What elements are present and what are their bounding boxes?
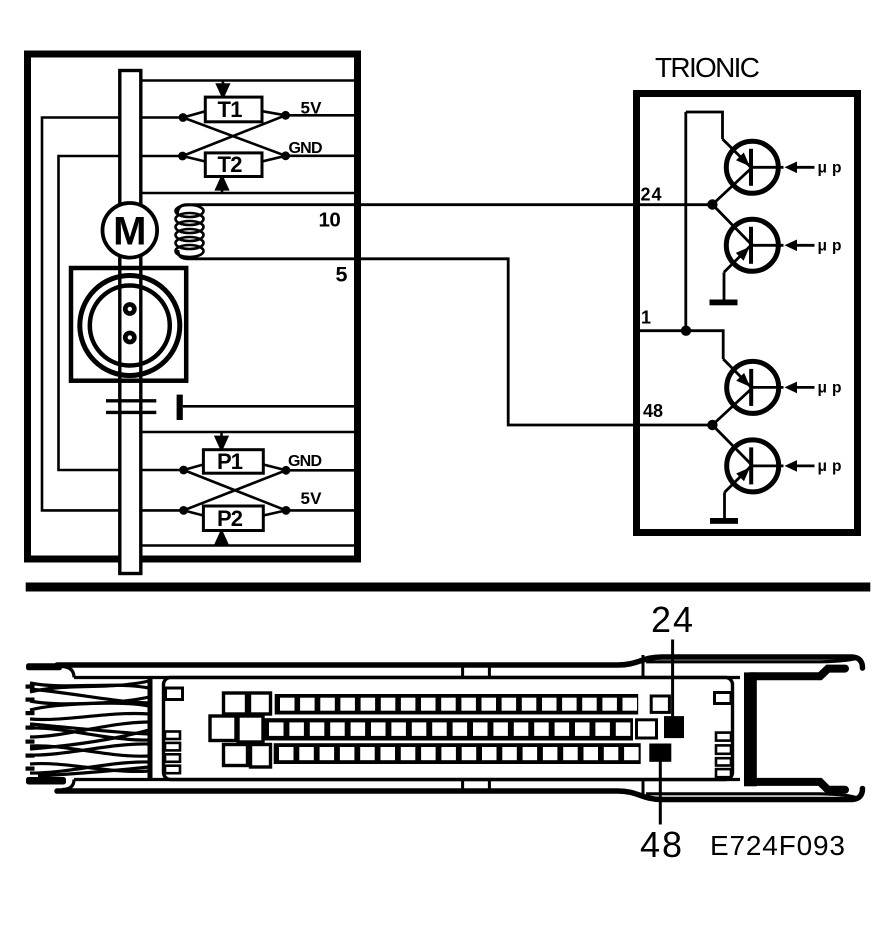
svg-text:E724F093: E724F093 — [710, 830, 845, 861]
wire pin 10 to Trionic pin 24 — [178, 205, 713, 214]
transistor Q1 — [712, 141, 783, 204]
potentiometer track P2 — [184, 506, 286, 531]
svg-text:TRIONIC: TRIONIC — [655, 52, 760, 83]
node 48 junction dot — [707, 420, 717, 430]
resistor track T1 — [183, 97, 286, 122]
motor winding coil — [176, 205, 204, 257]
throttle bore outer circle — [80, 276, 180, 376]
housing left comb teeth — [165, 732, 180, 774]
svg-text:1: 1 — [641, 308, 651, 328]
motor M — [103, 203, 158, 258]
keyway block cluster — [210, 693, 271, 767]
pin 1 wire — [637, 329, 687, 332]
throttle body enclosure box — [28, 54, 358, 559]
harness bundle end bar — [148, 679, 153, 778]
connector housing — [164, 678, 733, 780]
housing left keying tab — [166, 688, 183, 700]
harness outer outline bottom — [57, 789, 863, 800]
sheath inner line lower right — [646, 794, 857, 798]
pin 24 highlighted — [664, 716, 684, 738]
throttle bore inner circle — [90, 286, 170, 366]
pin holes row 1 — [280, 698, 637, 711]
leader line pin 24 — [671, 640, 674, 719]
pin strip row 1 — [275, 694, 639, 715]
svg-text:5: 5 — [336, 263, 348, 287]
wire GND lower — [286, 469, 358, 472]
harness jacket bottom stub — [26, 777, 66, 785]
junction dots T1/T2 — [178, 111, 290, 161]
wire T1-left to vertical bus A to P2-left — [42, 118, 184, 511]
pin holes row 2 — [269, 722, 630, 736]
harness jacket top stub — [26, 663, 62, 670]
transistor Q4 — [712, 425, 783, 518]
pin strip row 3 — [274, 743, 641, 764]
pin middle row end outline — [637, 720, 657, 738]
housing right keying tab — [715, 693, 732, 704]
harness wire strands — [30, 681, 149, 776]
pin holes row 3 — [279, 747, 639, 760]
throttle plate housing square — [71, 268, 186, 381]
ECU bracket bar — [744, 672, 757, 786]
mechanical link line (shaft to P1 wiper) — [138, 432, 358, 449]
svg-text:P1: P1 — [217, 449, 243, 474]
wire pin 5 to Trionic pin 48 — [178, 250, 712, 425]
wire T2-left to vertical bus B to P1-left — [59, 156, 184, 470]
wire 5V — [286, 114, 358, 117]
node 24 junction dot — [707, 199, 717, 209]
mu-p drive arrow Q2 — [785, 237, 842, 254]
mechanical link line bottom (shaft to P2 wiper) — [138, 532, 358, 546]
svg-text:P2: P2 — [217, 506, 243, 531]
svg-text:5V: 5V — [301, 489, 323, 508]
sheath inner line upper right — [646, 658, 857, 662]
crossover wires T1/T2 — [183, 118, 286, 156]
pin 48 highlighted — [649, 744, 671, 762]
ground upper pair — [710, 300, 738, 306]
supply rail wire — [684, 112, 687, 331]
potentiometer track P1 — [184, 449, 286, 474]
svg-text:10: 10 — [319, 209, 341, 232]
shaft coupling plates — [106, 401, 156, 413]
housing right comb teeth — [716, 733, 731, 778]
shell seam ticks — [463, 655, 643, 796]
resistor track T2 — [183, 152, 286, 177]
harness outer outline top — [57, 657, 863, 668]
throttle shaft — [120, 71, 141, 574]
wire GND — [286, 155, 358, 158]
svg-text:μ p: μ p — [818, 458, 842, 475]
wire rail to Q1 emitter — [686, 112, 751, 167]
svg-text:GND: GND — [289, 140, 323, 157]
svg-text:T1: T1 — [218, 97, 243, 122]
mechanical link line below T2 (shaft to T2 wiper) — [138, 177, 358, 193]
svg-text:48: 48 — [643, 401, 663, 421]
svg-text:5V: 5V — [301, 99, 323, 118]
mu-p drive arrow Q4 — [785, 458, 842, 475]
transistor Q3 — [712, 361, 783, 425]
mu-p drive arrow Q3 — [785, 379, 842, 396]
pin strip row 2 — [263, 718, 633, 740]
pin top row end outline — [651, 696, 669, 712]
svg-text:T2: T2 — [218, 152, 243, 177]
leader line pin 48 — [659, 760, 662, 825]
throttle plate screw upper — [123, 302, 137, 316]
wire 5V lower — [286, 509, 358, 512]
svg-text:μ p: μ p — [818, 379, 842, 396]
wire node 1 to Q3 emitter — [686, 331, 751, 388]
harness inner outline bottom — [62, 780, 740, 790]
junction dots P1/P2 — [179, 466, 290, 515]
svg-text:24: 24 — [641, 185, 662, 205]
svg-text:GND: GND — [288, 453, 322, 470]
svg-text:M: M — [113, 210, 146, 254]
svg-text:μ p: μ p — [818, 159, 842, 176]
ECU bracket arm bottom — [750, 782, 845, 790]
ECU bracket arm top — [750, 669, 845, 677]
mechanical link line top (shaft to T1 wiper) — [138, 81, 358, 97]
harness wire cut ends — [26, 685, 35, 771]
transistor Q2 — [712, 205, 783, 300]
pivot stop symbol — [177, 395, 358, 420]
throttle plate screw lower — [123, 331, 137, 345]
svg-text:μ p: μ p — [818, 237, 842, 254]
node 1 junction dot — [681, 326, 691, 336]
mu-p drive arrow Q1 — [785, 159, 842, 176]
ground lower pair — [710, 518, 738, 524]
crossover wires P1/P2 — [184, 470, 286, 510]
Trionic ECU box — [637, 94, 858, 533]
svg-text:48: 48 — [640, 824, 682, 865]
svg-text:24: 24 — [651, 599, 693, 640]
separator rule — [27, 584, 869, 590]
harness inner outline top — [62, 667, 740, 678]
